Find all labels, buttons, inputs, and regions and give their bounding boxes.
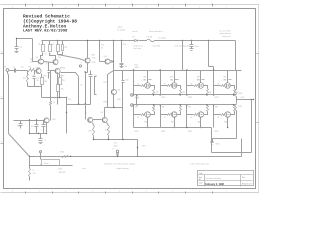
svg-text:3: 3 (146, 191, 147, 193)
svg-text:0R22: 0R22 (188, 131, 192, 133)
wire tail drop column (66, 98, 67, 134)
svg-text:2K2: 2K2 (43, 75, 46, 77)
svg-text:6: 6 (65, 191, 66, 193)
wire vbe mult side column (104, 71, 114, 108)
note text mid top (134, 45, 191, 51)
ground bus ground symbol (39, 134, 47, 145)
wire bottom bank sink rail (134, 127, 212, 128)
svg-text:W: W (137, 117, 139, 119)
capacitor C5 compensation (89, 71, 98, 105)
diode D1 on +V rail (133, 37, 138, 42)
wire right loop column (236, 71, 238, 89)
svg-text:W: W (191, 84, 193, 86)
svg-text:1: 1 (226, 191, 227, 193)
svg-text:4: 4 (119, 191, 120, 193)
label +V rail voltage (122, 44, 140, 69)
wire VAS +V drop (113, 41, 114, 71)
svg-text:2: 2 (172, 191, 173, 193)
wire front-end -V bus (93, 139, 138, 140)
mosfet M4 (224, 77, 232, 89)
wire output cell N3 left drop (186, 71, 187, 96)
wire diagonal feedback (9, 134, 30, 157)
capacitor C3 input shunt (33, 71, 40, 87)
svg-text:ans: ans (83, 168, 86, 170)
svg-text:8: 8 (12, 191, 13, 193)
svg-text:0R22: 0R22 (215, 131, 219, 133)
svg-text:Q10: Q10 (104, 56, 107, 58)
transistor Q6 (44, 118, 57, 123)
extra labels input stage (30, 53, 96, 101)
svg-text:W: W (217, 117, 219, 119)
resistor RG1 gate (134, 84, 145, 87)
svg-text:0R22: 0R22 (215, 97, 219, 99)
capacitor C4 nfb (17, 121, 23, 129)
svg-text:M9: M9 (153, 108, 156, 110)
svg-text:C35 comes with and: C35 comes with and (191, 163, 209, 166)
svg-text:fast safe: fast safe (134, 47, 142, 50)
wire output cell P6 left drop (160, 104, 161, 127)
svg-text:R10: R10 (68, 99, 71, 101)
wire M6 drain down (161, 118, 175, 134)
fuse F1 on +V rail (147, 36, 155, 42)
svg-text:M6: M6 (162, 107, 165, 109)
wire output node right (237, 97, 255, 100)
wire R5 to Q3 (41, 53, 43, 59)
svg-text:5: 5 (92, 191, 93, 193)
svg-text:W: W (137, 84, 139, 86)
resistor R9 bias (58, 41, 68, 55)
svg-text:use 4n: use 4n (132, 31, 137, 33)
resistor R16 Q8 emitter (105, 123, 110, 140)
svg-text:see rev of the: see rev of the (220, 29, 231, 32)
capacitor C11 -V note (114, 143, 118, 148)
svg-text:0R22: 0R22 (135, 131, 139, 133)
svg-text:IRF: IRF (224, 77, 227, 79)
wire nfb ground bus (29, 121, 47, 135)
wire top-left branch (16, 38, 33, 62)
resistor RS7 source (204, 106, 209, 115)
wire M5 drain down (135, 118, 149, 134)
svg-text:W: W (191, 117, 193, 119)
svg-text:output devices: output devices (220, 32, 232, 35)
fuse F2 on -V rail (30, 156, 242, 157)
mosfet M7 (188, 107, 203, 124)
svg-text:R4: R4 (30, 59, 32, 61)
note text bottom center (83, 163, 209, 170)
ground output stage (211, 139, 221, 146)
resistor R5 load (38, 41, 45, 52)
svg-text:W: W (217, 84, 219, 86)
transistor Q5 (85, 58, 97, 65)
svg-text:-V supply: -V supply (158, 38, 166, 40)
wire mid bus (67, 103, 91, 104)
input terminal J1 (4, 67, 9, 72)
svg-text:Rev: Rev (242, 177, 245, 179)
capacitor C7 rail decoupling (190, 41, 199, 52)
svg-text:R7: R7 (37, 80, 39, 82)
wire Q5 collector down (86, 64, 88, 73)
svg-text:5W: 5W (156, 92, 159, 94)
wire rail drop to Q5 (57, 41, 60, 55)
mosfet M6 (162, 107, 177, 124)
wire M8 drain down (215, 118, 229, 134)
svg-text:stage heating: stage heating (117, 167, 129, 170)
resistor R14 feedback top (50, 98, 56, 121)
resistor R21 zobel (29, 157, 31, 181)
svg-text:2K2: 2K2 (62, 80, 65, 82)
wire tail bus (42, 97, 68, 98)
wire right output drop (251, 100, 253, 153)
svg-text:R25: R25 (101, 45, 104, 47)
sheet inner border (4, 9, 256, 189)
svg-text:IRF: IRF (170, 77, 173, 79)
resistor R25 (100, 41, 105, 62)
svg-text:IRF: IRF (144, 77, 147, 79)
wire output cell N4 left drop (213, 71, 214, 96)
terminal -V supply (112, 146, 146, 157)
transistor Q10 (100, 56, 114, 64)
wire output cell N2 left drop (160, 71, 161, 96)
svg-text:GND: GND (216, 143, 221, 145)
resistor R6 load (49, 41, 55, 52)
inductor L1 box (29, 157, 73, 176)
svg-text:0R22: 0R22 (161, 131, 165, 133)
resistor RG5 gate (134, 114, 145, 119)
capacitor C13 base filter (48, 63, 51, 79)
svg-text:R23: R23 (59, 168, 62, 170)
wire Q5 emitter up (87, 40, 88, 58)
wire nfb row (14, 119, 44, 120)
resistor RS4 source (215, 86, 239, 99)
resistor RG4 gate (214, 84, 225, 87)
svg-text:20k: 20k (61, 89, 64, 91)
wire +V rail top (42, 40, 236, 42)
wire output stage +V bus (114, 69, 242, 70)
wire vbe mult column (113, 71, 114, 109)
resistor RS6 source (177, 106, 182, 115)
resistor RG8 gate (214, 114, 225, 119)
svg-text:these must all be: these must all be (149, 30, 163, 33)
title block (198, 171, 254, 187)
svg-text:2K2: 2K2 (61, 75, 64, 77)
svg-text:Document Number: Document Number (206, 177, 222, 180)
svg-text:7: 7 (39, 191, 40, 193)
resistor R3 input shunt (23, 71, 29, 87)
transistor Q8 (101, 112, 108, 123)
svg-text:L1: L1 (33, 170, 35, 172)
resistor RS2 source (161, 86, 185, 99)
wire input shunt bottom (28, 87, 42, 88)
svg-text:1k: 1k (53, 102, 55, 104)
wire input ground drop (8, 72, 9, 134)
resistor RG2 gate (161, 84, 172, 87)
resistor R15 Q7 emitter (89, 123, 95, 140)
wire bus link (136, 94, 137, 105)
transistor Q2 (55, 68, 64, 77)
wire cell P5 top link (154, 105, 156, 106)
mosfet M1 (144, 77, 152, 89)
svg-text:W: W (164, 117, 166, 119)
wire diagonal Q5 feed (58, 55, 85, 61)
svg-text:Sheet 1 of 1: Sheet 1 of 1 (242, 183, 252, 186)
wire bottom output rail (212, 139, 252, 153)
svg-text:100n: 100n (195, 46, 199, 48)
svg-text:C11: C11 (114, 143, 117, 145)
resistor R13 Q2 emitter (57, 74, 64, 105)
svg-text:adjust: adjust (118, 26, 123, 29)
mosfet M3 (197, 77, 205, 89)
capacitor C6 bracket (95, 77, 97, 95)
sheet zone tick marks bottom (12, 191, 227, 194)
resistor RS1 source (135, 86, 159, 99)
note text top right (132, 29, 231, 39)
svg-text:0R22: 0R22 (161, 97, 165, 99)
wire +V right drop (235, 41, 237, 71)
svg-text:10uH: 10uH (44, 163, 49, 165)
sheet zone tick marks sides (1, 50, 259, 143)
wire cell P7 top link (207, 105, 209, 106)
wire -V rail right end (241, 139, 243, 157)
transistor Q3 (36, 57, 44, 64)
node dots on +V rail (57, 40, 209, 41)
transistor Q7 (85, 113, 93, 123)
svg-text:Heatsink at 75 This2 starts: Heatsink at 75 This2 starts matted (105, 163, 135, 166)
note text above rail (118, 26, 126, 32)
svg-text:+75V: +75V (122, 44, 127, 46)
resistor RS5 source (151, 106, 155, 115)
transistor Q4 (53, 57, 62, 65)
mosfet M2 (170, 77, 178, 89)
resistor R1 input series (21, 67, 36, 72)
wire Q2 collector bend (61, 73, 79, 105)
svg-text:100n: 100n (114, 145, 118, 147)
wire output cell P8 left drop (213, 104, 214, 127)
svg-text:F1 6A: F1 6A (147, 36, 153, 39)
resistor R8 tail (59, 74, 66, 98)
wire cell P6 top link (180, 105, 182, 106)
wire cell P8 top link (234, 105, 236, 106)
resistor R30 right top (235, 89, 244, 100)
sheet outer border (1, 5, 260, 193)
wire VAS base column (84, 71, 85, 119)
svg-text:10u: 10u (124, 66, 127, 68)
svg-text:2SC: 2SC (52, 119, 56, 121)
svg-text:1: 1 (199, 191, 200, 193)
svg-text:February 2, 1998: February 2, 1998 (205, 183, 225, 186)
wire Q8 collector up (105, 108, 123, 118)
svg-text:LAST REV.02/02/1998: LAST REV.02/02/1998 (23, 28, 68, 33)
wire -V bus drop (137, 140, 138, 157)
terminal output bus A (131, 94, 133, 96)
wire M7 drain down (188, 118, 202, 134)
wire Q6 emitter (46, 124, 48, 134)
svg-text:M5: M5 (135, 107, 138, 109)
svg-text:10R 2W: 10R 2W (59, 172, 66, 174)
capacitor C10 bias (122, 71, 130, 140)
capacitor C12 small (79, 65, 81, 67)
svg-text:47u: 47u (31, 126, 34, 128)
resistor RS8 source (231, 106, 236, 115)
svg-text:for 50mA: for 50mA (118, 28, 126, 31)
capacitor C8 nfb shunt (31, 121, 39, 134)
svg-text:M8: M8 (137, 97, 140, 99)
resistor RG6 gate (161, 114, 172, 119)
capacitor C9 nfb shunt (42, 121, 46, 134)
wire Q7 Q8 base link (93, 119, 102, 121)
wire bottom step (212, 128, 237, 139)
svg-text:2K2: 2K2 (44, 81, 47, 83)
svg-text:5W: 5W (182, 92, 185, 94)
resistor RG3 gate (187, 84, 199, 87)
wire M4 drain (227, 71, 229, 83)
wire M3 drain (200, 71, 202, 83)
terminal output bus B (131, 104, 133, 106)
mosfet M5 (135, 107, 150, 124)
wire output cell N1 left drop (133, 71, 134, 96)
svg-text:Date:: Date: (199, 182, 204, 185)
title text block (23, 14, 77, 34)
resistor RG7 gate (187, 114, 199, 119)
wire cell3 +V drop (182, 41, 184, 71)
wire gate bus bottom bank (133, 97, 237, 110)
resistor RS3 source (188, 86, 212, 99)
svg-text:45: 45 (81, 84, 83, 86)
svg-text:M8: M8 (215, 107, 218, 109)
wire M2 drain (174, 71, 176, 83)
wire Q2 base feedback (50, 71, 55, 99)
resistor R31 right bottom (235, 100, 244, 139)
wire Q3-Q4 base link (33, 62, 53, 63)
svg-text:0R22: 0R22 (188, 97, 192, 99)
resistor R20 feedback (61, 152, 69, 158)
svg-text:5W: 5W (209, 92, 212, 94)
svg-text:IRF: IRF (197, 77, 200, 79)
wire +V feed step (209, 41, 214, 71)
wire output cell P5 left drop (133, 104, 134, 127)
svg-text:before use: before use (223, 36, 232, 38)
wire source bus top bank (133, 94, 237, 95)
transistor Q1 (33, 68, 42, 77)
capacitor C14 with ground (120, 41, 128, 69)
wire R6 to Q4 (50, 53, 56, 60)
capacitor C1 input (9, 66, 21, 72)
sheet zone tick marks top (12, 4, 227, 10)
svg-text:matched: matched (153, 45, 161, 48)
capacitor C2 with ground top-left (15, 39, 23, 54)
svg-text:100R: 100R (135, 67, 140, 69)
wire feedback bottom rail (29, 156, 71, 157)
mosfet M8 (215, 107, 230, 124)
wire M1 drain (147, 71, 149, 83)
svg-text:M7: M7 (188, 107, 191, 109)
svg-text:W: W (164, 84, 166, 86)
terminal test point (40, 151, 42, 157)
resistor R7 tail (37, 74, 48, 98)
wire output cell P7 left drop (186, 104, 187, 127)
transistor Q9 vbe multiplier (111, 89, 121, 101)
